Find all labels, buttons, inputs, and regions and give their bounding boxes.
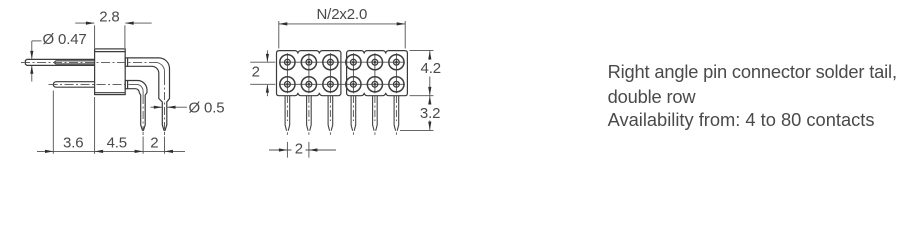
svg-text:Right angle pin connector sold: Right angle pin connector solder tail, <box>608 61 897 82</box>
svg-text:2: 2 <box>295 141 303 158</box>
svg-text:3.2: 3.2 <box>420 105 440 122</box>
svg-text:2: 2 <box>150 134 158 151</box>
svg-text:N/2x2.0: N/2x2.0 <box>317 6 368 23</box>
svg-text:4.5: 4.5 <box>107 134 127 151</box>
svg-text:Ø 0.47: Ø 0.47 <box>43 31 87 48</box>
svg-text:3.6: 3.6 <box>63 134 83 151</box>
svg-text:Ø 0.5: Ø 0.5 <box>189 99 225 116</box>
svg-text:Availability from: 4 to 80 con: Availability from: 4 to 80 contacts <box>608 109 875 130</box>
svg-text:double row: double row <box>608 86 697 107</box>
svg-text:2.8: 2.8 <box>99 9 119 26</box>
svg-text:2: 2 <box>252 64 260 81</box>
svg-text:4.2: 4.2 <box>421 60 441 77</box>
